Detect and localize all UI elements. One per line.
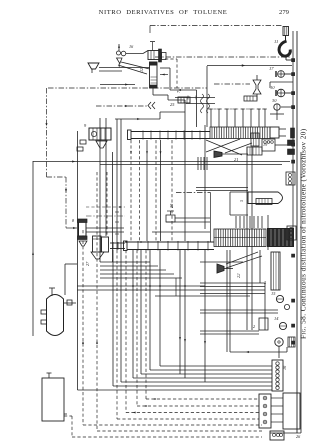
verticals into band top [196, 90, 198, 127]
dashed process rows mid-left [86, 206, 125, 208]
funnel under vessel 8 [79, 241, 87, 246]
dash-dot boundary left vertical [46, 88, 48, 177]
column upper right head [270, 127, 279, 138]
dash-dot drop to vessel 8 [65, 177, 67, 228]
feed line horizontal [126, 53, 143, 55]
line above funnel 22 [200, 261, 243, 263]
separator funnel upper right [253, 80, 261, 94]
manifold block lower [259, 394, 271, 428]
stripper column 3 [271, 252, 280, 290]
pump side block [162, 53, 167, 60]
dashed corner upper mid [165, 58, 177, 60]
x-brace diagonal a [206, 139, 240, 152]
diagonal feed line a [121, 62, 150, 69]
valve 20 lines [175, 217, 210, 219]
horn funnel 21 [214, 151, 222, 158]
diagonal feed line b [118, 65, 147, 74]
tank side fittings [41, 310, 47, 314]
pump suction line [230, 351, 287, 353]
column lower striped section two rows [214, 229, 266, 247]
svg-text:11: 11 [274, 39, 278, 44]
valve 10 handwheel [277, 89, 285, 97]
diagonal to horn [225, 143, 252, 153]
valve stack circle b [121, 51, 126, 56]
right connector stack A [286, 172, 295, 185]
x-brace diagonal b [206, 140, 242, 155]
hatch group left of transfer [197, 157, 199, 170]
vent line with arrow [118, 44, 120, 51]
terminal box lower right [283, 393, 300, 429]
svg-text:5: 5 [239, 200, 244, 202]
misc junction dots [132, 285, 134, 287]
right connector stack B [287, 226, 296, 240]
header line y90 [170, 89, 197, 91]
tray bars above band2 [235, 216, 237, 228]
condenser 19 hatched block [247, 147, 262, 155]
dash-dot line mid with arrow [96, 105, 148, 107]
tank top fitting [51, 288, 53, 296]
break chevrons [148, 102, 151, 109]
solid corner upper mid [160, 67, 170, 69]
right border bottom corner [270, 432, 301, 434]
flanged line y95 right [175, 97, 215, 99]
solid arrow segment left [100, 84, 135, 86]
dash-dot branch [214, 83, 250, 85]
riser above pump [152, 42, 154, 51]
dashed duo left b [96, 172, 98, 431]
valve stack circle a [117, 51, 121, 55]
lower rect column [102, 237, 109, 252]
feed funnel left [88, 63, 99, 69]
lines at y331 [200, 330, 259, 332]
right fitting pair upper [288, 140, 295, 146]
lines at y310 [200, 309, 278, 311]
left cluster spine [77, 131, 79, 390]
verticals below band2 [112, 250, 114, 386]
valve stack funnel down [117, 58, 123, 64]
riser bars above column [210, 109, 212, 127]
pump 13 circle [275, 338, 283, 346]
column pipe lower shell [127, 241, 214, 243]
svg-text:279: 279 [279, 9, 290, 16]
valve 20 body [166, 215, 175, 222]
right border lower second line [300, 152, 302, 433]
flange above U-bend [283, 27, 289, 36]
dash-dot L near valve 20 [176, 192, 211, 194]
right border line inner [292, 31, 294, 230]
svg-text:17: 17 [269, 66, 274, 71]
bundle mid-right [200, 282, 265, 284]
tank feed vertical [64, 264, 66, 295]
stubs manifold to box [271, 397, 283, 399]
topmost line corner stub [149, 26, 151, 34]
second transfer line [100, 164, 282, 166]
small vertical hatched column [251, 133, 259, 146]
separator vessel dome [248, 192, 283, 204]
vertical tank capsule 28 [47, 295, 64, 336]
vessel 8 capsule [79, 222, 87, 236]
down arrows on mid verticals [130, 151, 132, 154]
dash-dot boundary corner to cluster [47, 176, 67, 178]
line above upper column [115, 118, 160, 120]
topmost dash-dot line [150, 25, 282, 27]
staircase bundle mid [100, 261, 150, 263]
top solid pipe with arrow [207, 65, 292, 67]
dash-dot steam main top [155, 56, 290, 58]
valve cluster right of pump [288, 337, 295, 347]
column pipe upper left cap [128, 130, 132, 140]
tank outlet valve right [64, 302, 77, 304]
mid verticals between bands [130, 140, 132, 241]
pipe U-bend 11 [279, 41, 290, 56]
bubbler vessel 3a [262, 139, 275, 151]
valve 14 [279, 322, 286, 329]
svg-text:2: 2 [253, 324, 255, 329]
separator inlet pipes [230, 191, 248, 193]
svg-text:10: 10 [270, 85, 275, 90]
tank drain dashed [64, 415, 72, 417]
break squiggles [201, 94, 204, 113]
column pipe upper shell [131, 131, 210, 133]
dashed fan corners [146, 398, 259, 400]
storage tank top stub [48, 373, 50, 378]
reflux pump 30 circle [274, 104, 280, 110]
valve small below 15 [284, 304, 289, 309]
dashed duo left a [82, 230, 84, 425]
funnel under ejector [96, 141, 107, 148]
component 2 box [259, 318, 268, 330]
reflux pump piping [281, 106, 293, 108]
storage tank overflow nib [64, 413, 67, 415]
right border line outer [296, 31, 298, 433]
vertical from top main [206, 66, 208, 127]
column pipe lower flange ticks [137, 241, 139, 251]
cluster vertical a [99, 118, 101, 262]
diagonal from funnel [226, 252, 258, 264]
lower vessel 27 [93, 236, 102, 252]
extra border nubs lower [292, 254, 295, 257]
ejector pump block [89, 128, 111, 140]
dark exchanger block right [268, 229, 294, 247]
funnel outlet second [99, 70, 122, 72]
pipe to valve 10 [270, 81, 293, 83]
valve 17 handwheel [278, 71, 285, 78]
column upper striped section [210, 127, 270, 139]
separator inner hatched element [256, 199, 272, 205]
heater block 25 [178, 97, 190, 103]
line from pump down [278, 346, 280, 358]
U-bend outlet to border [285, 55, 287, 60]
bent pipe to pump [143, 51, 148, 54]
up arrows dashed pair [82, 341, 84, 344]
left main line [32, 161, 34, 336]
column pipe lower left cap [124, 241, 128, 251]
arrows on dashed rows [153, 398, 156, 400]
arrow stub [160, 74, 168, 76]
column pipe upper flange ticks [142, 131, 144, 140]
border nub row [292, 59, 295, 62]
bottom right small block 26 [270, 431, 284, 440]
dash-dot boundary top [48, 87, 207, 89]
valve 15 [276, 295, 283, 302]
left dashed pair corners [83, 424, 262, 426]
vessel 12 capsule [150, 62, 158, 88]
flanged pipe to band2 [110, 242, 125, 244]
cluster cross lines [86, 227, 124, 229]
svg-text:NITRO DERIVATIVES OF TOLUENE: NITRO DERIVATIVES OF TOLUENE [99, 9, 228, 16]
flanged verticals to band2 [116, 119, 118, 250]
small hatched cylinder [244, 96, 257, 101]
manifold block upper [272, 360, 283, 391]
riser bars cap dashes [208, 108, 267, 110]
pump flange dark [159, 49, 162, 62]
cluster vertical b [105, 118, 107, 236]
left main line top horizontal [33, 161, 290, 163]
pipe pair long right [246, 147, 248, 330]
border nub upper head [291, 128, 295, 138]
process lines above separator [196, 187, 248, 189]
funnel under vessel 27 [91, 252, 104, 259]
solid corner nest [159, 365, 161, 366]
feed arrow into vessel 8 [66, 227, 77, 229]
step line y296 [175, 278, 177, 296]
left small valves diagonal [80, 140, 86, 144]
funnel outlet line [99, 67, 150, 69]
long line pair lower [77, 285, 205, 287]
vessel 12 drain staircase [152, 88, 154, 95]
pump body hatched [148, 51, 159, 60]
dashed short c [106, 172, 108, 235]
horn funnel 22 [217, 264, 224, 273]
storage tank rectangle [42, 378, 64, 421]
